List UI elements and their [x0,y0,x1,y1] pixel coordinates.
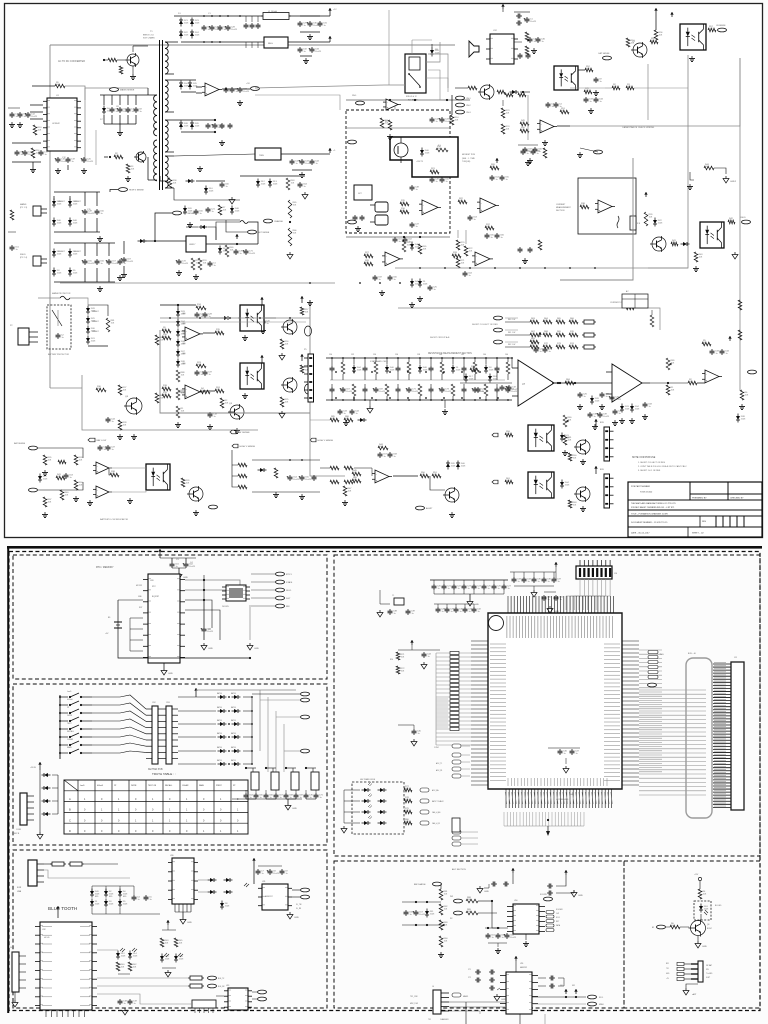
bluetooth usb connector [28,860,37,886]
power led arrows [244,883,249,887]
mid band extra caps [354,215,356,217]
svg-text:R42 1 0Z: R42 1 0Z [508,344,516,346]
long gray rail y268 [395,267,688,269]
page 2 outer dashed frame [9,552,760,1011]
svg-text:.1u: .1u [100,213,103,215]
opto right mid [700,222,724,248]
svg-text:MAIN1: MAIN1 [463,995,468,998]
bus rounded rect [686,658,712,818]
mcu bottom flags [452,830,461,834]
output transistor row 2 [576,487,590,501]
svg-text:-: - [541,123,542,126]
svg-text:C36: C36 [395,354,398,356]
svg-text:DN-1: DN-1 [352,95,356,97]
svg-text:1N4007: 1N4007 [74,251,81,253]
svg-text:10u/25: 10u/25 [182,263,189,265]
hv sense flag [119,188,128,192]
svg-text:.1u: .1u [139,111,142,113]
svg-text:R40 1 0Z: R40 1 0Z [508,319,516,321]
U4A feedback caps [431,177,433,179]
svg-text:RST: RST [139,607,142,609]
mcu bottom pin slant labels [505,792,507,804]
opto top right corner [680,24,706,50]
svg-text:.1u: .1u [393,279,396,281]
mcu right bus to connector [639,689,706,691]
svg-text:.1u: .1u [505,179,508,181]
extra caps under std cell [339,409,341,411]
svg-text:CON5: CON5 [16,829,21,831]
3 net flags column [456,96,465,100]
svg-text:.1u: .1u [491,937,494,939]
svg-text:KEY B: KEY B [14,833,20,835]
mcu right pulldown labels [648,650,658,653]
svg-text:STANDARD CELL: STANDARD CELL [370,360,389,363]
svg-text:RTC1: RTC1 [286,574,292,576]
svg-text:3L_TM: 3L_TM [296,904,302,906]
adc lower ic U51 [506,972,532,1014]
svg-text:-: - [706,373,707,376]
svg-text:1N4007: 1N4007 [58,201,65,203]
resistor R gate [114,155,123,159]
svg-text:SHORT COLLECT OF RES: SHORT COLLECT OF RES [472,324,498,326]
svg-text:USB: USB [17,891,22,893]
keep-alive cluster under xfmr [207,207,209,209]
svg-text:.1u: .1u [200,374,203,376]
svg-text:.1u: .1u [445,181,448,183]
bt module U32 [40,922,92,1010]
adc lower bus wires [449,1001,506,1003]
svg-text:.1u: .1u [433,289,436,291]
svg-text:C46: C46 [505,354,508,356]
bt ldo U31 [262,884,288,910]
svg-text:.1u: .1u [199,213,202,215]
svg-text:+5V KB: +5V KB [30,767,37,769]
rtc wires to eeprom [185,580,240,585]
ind uart gnd [686,984,698,988]
svg-text:-: - [206,86,207,89]
svg-text:CAP SENSE: CAP SENSE [598,52,610,55]
current collect net [398,307,622,309]
svg-text:.1u: .1u [319,797,322,799]
svg-text:-: - [376,473,377,476]
svg-text:1N4007: 1N4007 [92,331,99,333]
svg-text:.1u: .1u [223,29,226,31]
mosfet pcb solid box [390,137,458,177]
svg-text:10u/25: 10u/25 [293,479,300,481]
mcu top pins [507,596,509,613]
r divider tall [288,200,292,218]
svg-text:NOTE: FOR PCB USE: NOTE: FOR PCB USE [632,457,656,459]
svg-text:GND: GND [187,922,192,924]
caps in dashed [431,117,433,119]
svg-text:PREPARED BY: PREPARED BY [692,497,707,500]
svg-text:UC3842: UC3842 [52,123,60,125]
bt +3 arrow [57,906,59,911]
adc top caps left [491,883,493,885]
svg-text:TITLE – FORMATION CHARGER 1: TITLE – FORMATION CHARGER 15 WR [631,512,668,515]
svg-text:SAVE: SAVE [199,784,205,787]
svg-text:.1u: .1u [557,581,560,583]
svg-text:RTC: RTC [152,586,156,588]
svg-text:.1u: .1u [398,241,401,243]
relay RL1 box [405,54,426,93]
fuse squiggle [240,221,248,224]
mcu bottom pins [505,789,507,808]
res under tri12 [388,120,392,130]
svg-text:.1u: .1u [123,263,126,265]
svg-text:SYDNEY BASST. NSWBRR-RW-245 –: SYDNEY BASST. NSWBRR-RW-245 – 4 RT 871 [631,506,675,509]
svg-text:B: B [69,808,71,812]
svg-text:ALERT: ALERT [426,507,433,510]
svg-text:R9: R9 [385,121,387,123]
inductor L1 box [261,15,263,17]
svg-text:10u/25: 10u/25 [315,51,322,53]
adc main flag [452,993,461,997]
opto battery low [146,464,170,490]
snubber cluster [100,94,148,96]
svg-text:10u/25: 10u/25 [603,416,610,418]
svg-text:EER/3 I.3 LI: EER/3 I.3 LI [143,35,154,37]
svg-text:CB SENSE: CB SENSE [716,25,726,27]
res v divider 500 [501,108,505,118]
svg-text:U31: U31 [262,881,265,883]
adc lower +5 [515,956,517,961]
usb caps [133,895,135,897]
mcu decoupling caps top row [430,579,508,581]
zener row right [256,181,260,185]
svg-text:MAINS: MAINS [20,203,27,206]
svg-text:.1u: .1u [715,353,718,355]
svg-text:.1u: .1u [599,81,602,83]
pot and feedback B [666,358,670,370]
svg-text:24PIN: 24PIN [131,785,137,787]
right connector pin strip [713,663,731,665]
svg-text:TX2_15W: TX2_15W [410,996,418,998]
svg-text:.1u: .1u [468,611,471,613]
svg-text:.1u: .1u [490,237,493,239]
svg-text:TX1: TX1 [428,1019,431,1021]
usb vreg ic [172,858,194,904]
opto block bottom left mcu [352,782,404,834]
svg-text:.1u: .1u [527,581,530,583]
svg-text:.1u: .1u [137,899,140,901]
svg-text:.1u: .1u [593,416,596,418]
resistor ladder shunt rows [505,321,530,323]
field bridge input connector P1B [33,256,41,266]
relay JK box [354,185,372,200]
svg-text:SHEET – 1/2: SHEET – 1/2 [692,533,705,535]
cap el input [123,257,125,259]
mcu left small group top [398,649,440,651]
adc wr rx flags [454,899,463,903]
svg-text:GND: GND [474,604,479,606]
bt tx rx resistors [188,977,190,979]
svg-text:BZ: BZ [652,927,654,929]
svg-text:D: D [69,829,71,833]
svg-text:D11: D11 [435,49,438,51]
svg-text:-: - [97,489,98,492]
svg-text:10u/25: 10u/25 [615,399,622,401]
svg-text:1N4007: 1N4007 [92,311,99,313]
res cluster bottom mid [330,418,339,422]
svg-text:FIELD: FIELD [20,254,26,256]
svg-text:.1u: .1u [559,599,562,601]
svg-text:.1u: .1u [315,163,318,165]
svg-text:.1u: .1u [547,581,550,583]
svg-text:.1u: .1u [100,263,103,265]
opamp rails bottomleft [109,467,146,469]
svg-text:.1u: .1u [409,914,412,916]
sec rail 3 [179,123,183,127]
buzzer flags bottom mid [310,438,316,442]
svg-text:C72: C72 [468,977,471,979]
svg-text:.1u: .1u [393,456,396,458]
svg-text:.1u: .1u [20,154,23,156]
svg-text:.1u: .1u [495,179,498,181]
adc top caps right [547,885,549,887]
svg-text:+5V: +5V [666,978,669,980]
rtc gnd right [249,605,251,640]
svg-text:TORQUE): TORQUE) [462,161,471,163]
sec rails to mid [255,85,384,88]
svg-text:GND: GND [292,808,297,810]
U1 bottom cap [57,157,59,159]
svg-text:.1u: .1u [500,237,503,239]
svg-text:.1u: .1u [481,391,484,393]
transistor below U12 [480,85,494,99]
svg-text:GND: GND [168,673,173,675]
svg-text:C71: C71 [468,969,471,971]
svg-text:.1u: .1u [457,588,460,590]
svg-text:.1u: .1u [23,116,26,118]
rtc +5V arrow [159,549,161,554]
bt module inner pin labels [42,925,52,927]
bt lower wires [97,994,192,1004]
top rail through dashed [346,127,450,129]
res after ladder rows [650,315,654,327]
svg-text:1N4007: 1N4007 [92,321,99,323]
mosfet Q5 [394,143,408,157]
svg-text:.1u: .1u [437,588,440,590]
svg-text:0/GraD: 0/GraD [97,784,104,787]
mcu top-right header [576,566,612,579]
svg-text:.1u: .1u [541,41,544,43]
svg-text:GND: GND [484,891,489,893]
svg-text:BUS – 40: BUS – 40 [688,653,696,655]
svg-text:.1u: .1u [235,91,238,93]
svg-text:GND: GND [578,895,583,897]
svg-text:ON-2: ON-2 [466,105,471,107]
svg-text:SAVE: SAVE [67,746,72,749]
mains bridge input connector P1A [33,206,41,216]
wire top right bus [570,87,605,89]
speaker symbol [469,41,479,57]
svg-text:BAT SENSE: BAT SENSE [238,431,251,434]
svg-text:.1u: .1u [355,413,358,415]
svg-text:RTC / MEMORY: RTC / MEMORY [96,566,114,569]
second bridge extra caps [119,259,121,261]
svg-text:3. SHORT J & 1 OF RES: 3. SHORT J & 1 OF RES [638,470,661,472]
keypad connector bars [152,706,158,764]
svg-text:.1u: .1u [528,151,531,153]
svg-text:DK1: DK1 [560,985,563,987]
resistor mosfet [436,148,448,152]
mcu right wire bundle [639,649,662,651]
adc gnd under ic [525,934,527,940]
sec rail 1 rectifiers [174,41,178,43]
diode chain [86,308,90,312]
keypad gnd bottom [39,825,41,832]
optocoupler row 1 [240,305,264,331]
svg-text:REG: REG [268,43,273,45]
rtc mid vertical wire [203,575,205,600]
svg-text:C34: C34 [373,354,376,356]
svg-text:.1u: .1u [69,477,72,479]
svg-text:RECALL: RECALL [67,730,74,733]
svg-text:24C02N: 24C02N [222,606,229,608]
keypad right diode groups [178,696,216,698]
mcu inner pin name texture [490,643,506,645]
svg-text:.1u: .1u [468,275,471,277]
svg-text:-: - [387,101,388,104]
svg-text:STA/S: STA/S [286,581,293,584]
svg-text:.1u: .1u [123,1003,126,1005]
svg-text:U50: U50 [514,900,517,902]
svg-text:10u/25: 10u/25 [379,391,386,393]
svg-text:BLE_TX: BLE_TX [218,978,225,980]
battery protector connector [18,328,29,345]
rtc cap right [203,627,205,629]
rtc top caps [160,557,196,559]
svg-text:10u/25: 10u/25 [530,21,537,23]
diode cap column mid [410,281,414,285]
gray rails left mid [160,317,310,319]
svg-text:.1u: .1u [133,1003,136,1005]
svg-text:-: - [599,203,600,206]
svg-text:C30: C30 [329,354,332,356]
ic U12 top [490,34,514,64]
svg-text:J4: J4 [10,947,12,949]
adc ic U50 [513,904,539,934]
svg-text:-: - [186,389,187,392]
svg-text:CHECKED BY: CHECKED BY [730,498,744,500]
svg-text:.1u: .1u [208,374,211,376]
svg-text:10u/25: 10u/25 [243,91,250,93]
mcu section dashed box [334,555,760,856]
output network A-B [557,382,559,384]
res chain right of opamps [456,240,460,250]
+12V arrow [329,8,331,13]
svg-text:.1u: .1u [149,899,152,901]
svg-text:.1u: .1u [618,413,621,415]
bt module bottom pins [45,1010,47,1017]
svg-text:.1u: .1u [599,101,602,103]
svg-text:U-WT: U-WT [706,977,710,979]
svg-text:BAT LOW: BAT LOW [97,439,108,442]
svg-text:10u/25: 10u/25 [412,391,419,393]
svg-text:.1u: .1u [289,797,292,799]
bridge 1 diodes [52,201,56,205]
title block [628,482,762,537]
svg-text:.1u: .1u [131,111,134,113]
svg-text:TX1: TX1 [666,968,669,970]
svg-text:.1u: .1u [548,351,551,353]
svg-text:.1u: .1u [450,611,453,613]
page 2 top border [7,546,762,549]
diode cap cluster under tri2 [620,406,624,410]
adc lower out wires [532,996,586,998]
svg-text:GND2: GND2 [730,181,737,183]
svg-text:PRINT: PRINT [216,785,223,787]
right col res [738,330,742,340]
keypad left diodes column [39,770,41,825]
extra diodes below xfmr [183,208,187,212]
svg-text:.1u: .1u [441,611,444,613]
ic U1 pwm controller [47,98,77,151]
svg-text:1N4007: 1N4007 [58,251,65,253]
svg-text:DATE – 06–05–2017: DATE – 06–05–2017 [631,532,650,535]
high v sense divider cluster [232,444,238,448]
svg-text:SHORT CIRCUIT A-B: SHORT CIRCUIT A-B [430,336,450,339]
svg-text:24PIN: 24PIN [67,715,73,717]
transistor battery low [189,487,203,501]
extra wire top mid [428,54,448,88]
svg-text:LM317: LM317 [189,244,196,246]
keypad section dashed box [13,684,327,845]
extra res row tr [505,93,513,97]
gnd cluster bl [75,496,77,499]
shunt box [632,214,634,216]
svg-text:.1u: .1u [279,797,282,799]
svg-text:7805: 7805 [259,155,265,157]
svg-text:.1u: .1u [473,219,476,221]
svg-text:.1u: .1u [477,588,480,590]
std cell gnd mid [444,400,446,408]
mcu left labels column [436,698,448,700]
mcu right pins [622,640,639,642]
gnd bottom rows [309,300,311,303]
U1 left components [30,104,43,106]
adc bottom vertical wires [465,1002,467,1024]
svg-text:.1u: .1u [415,226,418,228]
zener mosfet [420,150,424,154]
svg-text:.1u: .1u [539,351,542,353]
svg-text:.1u: .1u [435,121,438,123]
extra dots std cell [335,371,337,373]
svg-text:.1u: .1u [303,51,306,53]
svg-text:MAINS SENSE: MAINS SENSE [120,89,135,92]
svg-text:10u/25: 10u/25 [231,29,238,31]
svg-text:.1u: .1u [725,353,728,355]
pot mid bottom [563,415,567,427]
svg-text:+15V P5: +15V P5 [416,161,423,163]
svg-text:10u/25: 10u/25 [31,116,38,118]
eeprom U21 [226,585,246,601]
bt mid header [192,1000,216,1008]
svg-text:.1u: .1u [517,581,520,583]
gray wire bottom mid [310,420,345,476]
big opamp B resistance [612,364,642,402]
svg-text:C: C [69,818,71,822]
adc out flags right [588,995,597,999]
svg-text:.1u: .1u [259,797,262,799]
rtc gnd mid [203,643,205,646]
svg-text:.1u: .1u [383,456,386,458]
extra stubs rail3 [225,87,227,89]
svg-text:PCB PART NUMBER: PCB PART NUMBER [631,485,651,488]
adc resistor chain vertical [440,884,442,889]
opamp U10 bottom mid [375,470,389,483]
